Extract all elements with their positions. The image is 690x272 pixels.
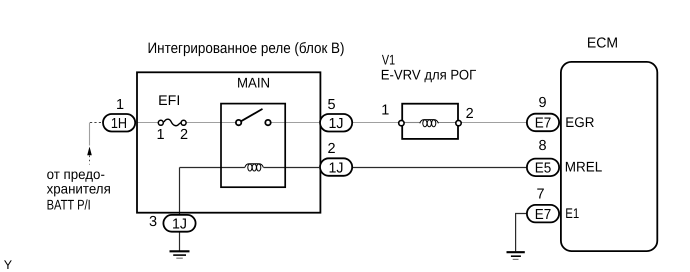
svg-text:1J: 1J <box>329 116 344 132</box>
svg-text:MREL: MREL <box>565 159 603 175</box>
svg-text:1: 1 <box>381 103 389 119</box>
svg-text:7: 7 <box>536 187 544 203</box>
svg-text:E1: E1 <box>565 205 579 221</box>
svg-text:9: 9 <box>538 95 546 111</box>
svg-text:5: 5 <box>327 97 335 113</box>
svg-text:от предо-: от предо- <box>47 166 106 182</box>
svg-text:MAIN: MAIN <box>237 74 270 90</box>
svg-text:Интегрированное реле (блок B): Интегрированное реле (блок B) <box>148 40 345 57</box>
svg-text:1H: 1H <box>111 116 127 132</box>
svg-text:ECM: ECM <box>587 36 618 52</box>
svg-text:Y: Y <box>4 258 13 272</box>
svg-text:1: 1 <box>156 127 164 143</box>
svg-text:E5: E5 <box>535 161 552 177</box>
svg-text:E7: E7 <box>535 116 552 132</box>
svg-text:2: 2 <box>466 106 474 122</box>
svg-text:хранителя: хранителя <box>47 181 111 197</box>
svg-text:1: 1 <box>116 97 124 113</box>
svg-text:2: 2 <box>327 141 335 157</box>
svg-text:1J: 1J <box>172 216 187 232</box>
svg-text:EGR: EGR <box>565 114 594 130</box>
svg-text:3: 3 <box>149 214 157 230</box>
svg-text:1J: 1J <box>329 160 344 176</box>
svg-text:2: 2 <box>180 127 188 143</box>
svg-text:8: 8 <box>538 138 546 154</box>
svg-text:EFI: EFI <box>158 92 180 108</box>
svg-text:E7: E7 <box>535 207 552 223</box>
svg-text:V1: V1 <box>382 51 395 67</box>
svg-text:E-VRV для РОГ: E-VRV для РОГ <box>381 67 477 83</box>
svg-text:BATT P/I: BATT P/I <box>47 196 91 212</box>
